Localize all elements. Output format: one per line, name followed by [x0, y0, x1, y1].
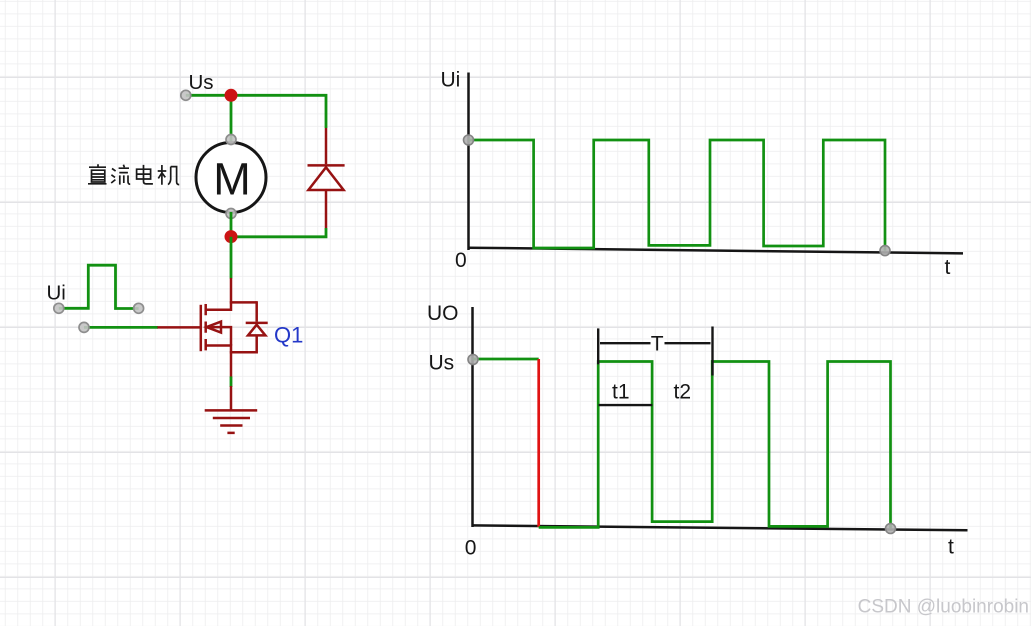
- wire junction down to motor top: [230, 95, 233, 141]
- period marker T right bar: [711, 327, 713, 376]
- y axis: [471, 307, 474, 527]
- svg-text:Us: Us: [189, 71, 214, 94]
- svg-text:M: M: [213, 154, 251, 205]
- pulse source V1 symbol: [59, 265, 139, 308]
- wire gate input: [84, 326, 158, 329]
- terminal V1 left: [54, 303, 64, 313]
- wire bottom junction to diode bottom: [231, 228, 326, 237]
- svg-text:Us: Us: [429, 352, 455, 375]
- svg-text:Ui: Ui: [47, 282, 66, 305]
- Q1 substrate lead: [206, 327, 231, 345]
- Q1 channel segments: [204, 304, 207, 350]
- marker dot waveform end: [880, 246, 890, 256]
- junction node bottom: [225, 230, 238, 243]
- Q1 body diode pin top: [255, 301, 258, 322]
- svg-text:T: T: [651, 333, 664, 356]
- svg-text:Ui: Ui: [441, 69, 461, 92]
- period marker T left bar: [597, 328, 599, 364]
- terminal Us: [181, 90, 191, 100]
- Q1 source lead: [206, 346, 231, 378]
- svg-text:CSDN @luobinrobin: CSDN @luobinrobin: [858, 597, 1029, 618]
- Q1 body diode triangle: [248, 325, 265, 336]
- transistor Q1 NMOS: [157, 278, 267, 378]
- svg-text:UO: UO: [427, 302, 459, 325]
- wire Us terminal to junction: [186, 94, 231, 97]
- wire motor bottom to junction: [230, 212, 233, 237]
- marker dot waveform end: [886, 524, 896, 534]
- terminal gate input: [79, 322, 89, 332]
- Q1 body diode pin bottom: [230, 335, 257, 352]
- svg-text:0: 0: [465, 537, 477, 560]
- period marker T line right: [665, 342, 711, 344]
- diode D1 flyback: [308, 128, 345, 228]
- marker dot waveform start: [468, 355, 478, 365]
- waveform UO red falling edge: [537, 359, 540, 527]
- Q1 substrate arrow: [207, 322, 221, 333]
- waveform UO first high segment: [473, 358, 539, 361]
- svg-text:t1: t1: [612, 381, 630, 404]
- terminal motor top pin: [226, 135, 236, 145]
- Q1 drain lead: [206, 278, 231, 310]
- Q1 gate pin: [157, 326, 200, 329]
- svg-text:t: t: [945, 256, 951, 279]
- ground: [205, 386, 258, 433]
- Q1 gate bar: [200, 305, 203, 351]
- svg-text:Q1: Q1: [274, 323, 303, 348]
- x axis: [468, 248, 964, 254]
- junction node top: [225, 89, 238, 102]
- wire junction to diode top corner: [231, 95, 326, 128]
- y axis: [467, 73, 470, 251]
- svg-text:t2: t2: [674, 381, 692, 404]
- Q1 jog to body diode: [230, 301, 257, 304]
- label 直流电机 (DC motor, hand-drawn glyphs): [88, 164, 179, 185]
- waveform UO remainder: [539, 362, 891, 529]
- period marker T line left: [600, 342, 651, 344]
- marker t1 line: [599, 404, 653, 406]
- svg-text:0: 0: [455, 249, 467, 272]
- terminal motor bottom pin: [226, 209, 236, 219]
- x axis: [472, 525, 968, 530]
- wire junction down to Q1 drain: [230, 237, 233, 279]
- wire Q1 source to ground: [230, 377, 233, 388]
- waveform Ui: [469, 140, 886, 251]
- terminal V1 right: [134, 303, 144, 313]
- motor M1 circle: [196, 143, 266, 213]
- Q1 body diode cathode bar: [246, 322, 268, 325]
- svg-text:t: t: [948, 536, 954, 559]
- marker dot waveform start: [464, 135, 474, 145]
